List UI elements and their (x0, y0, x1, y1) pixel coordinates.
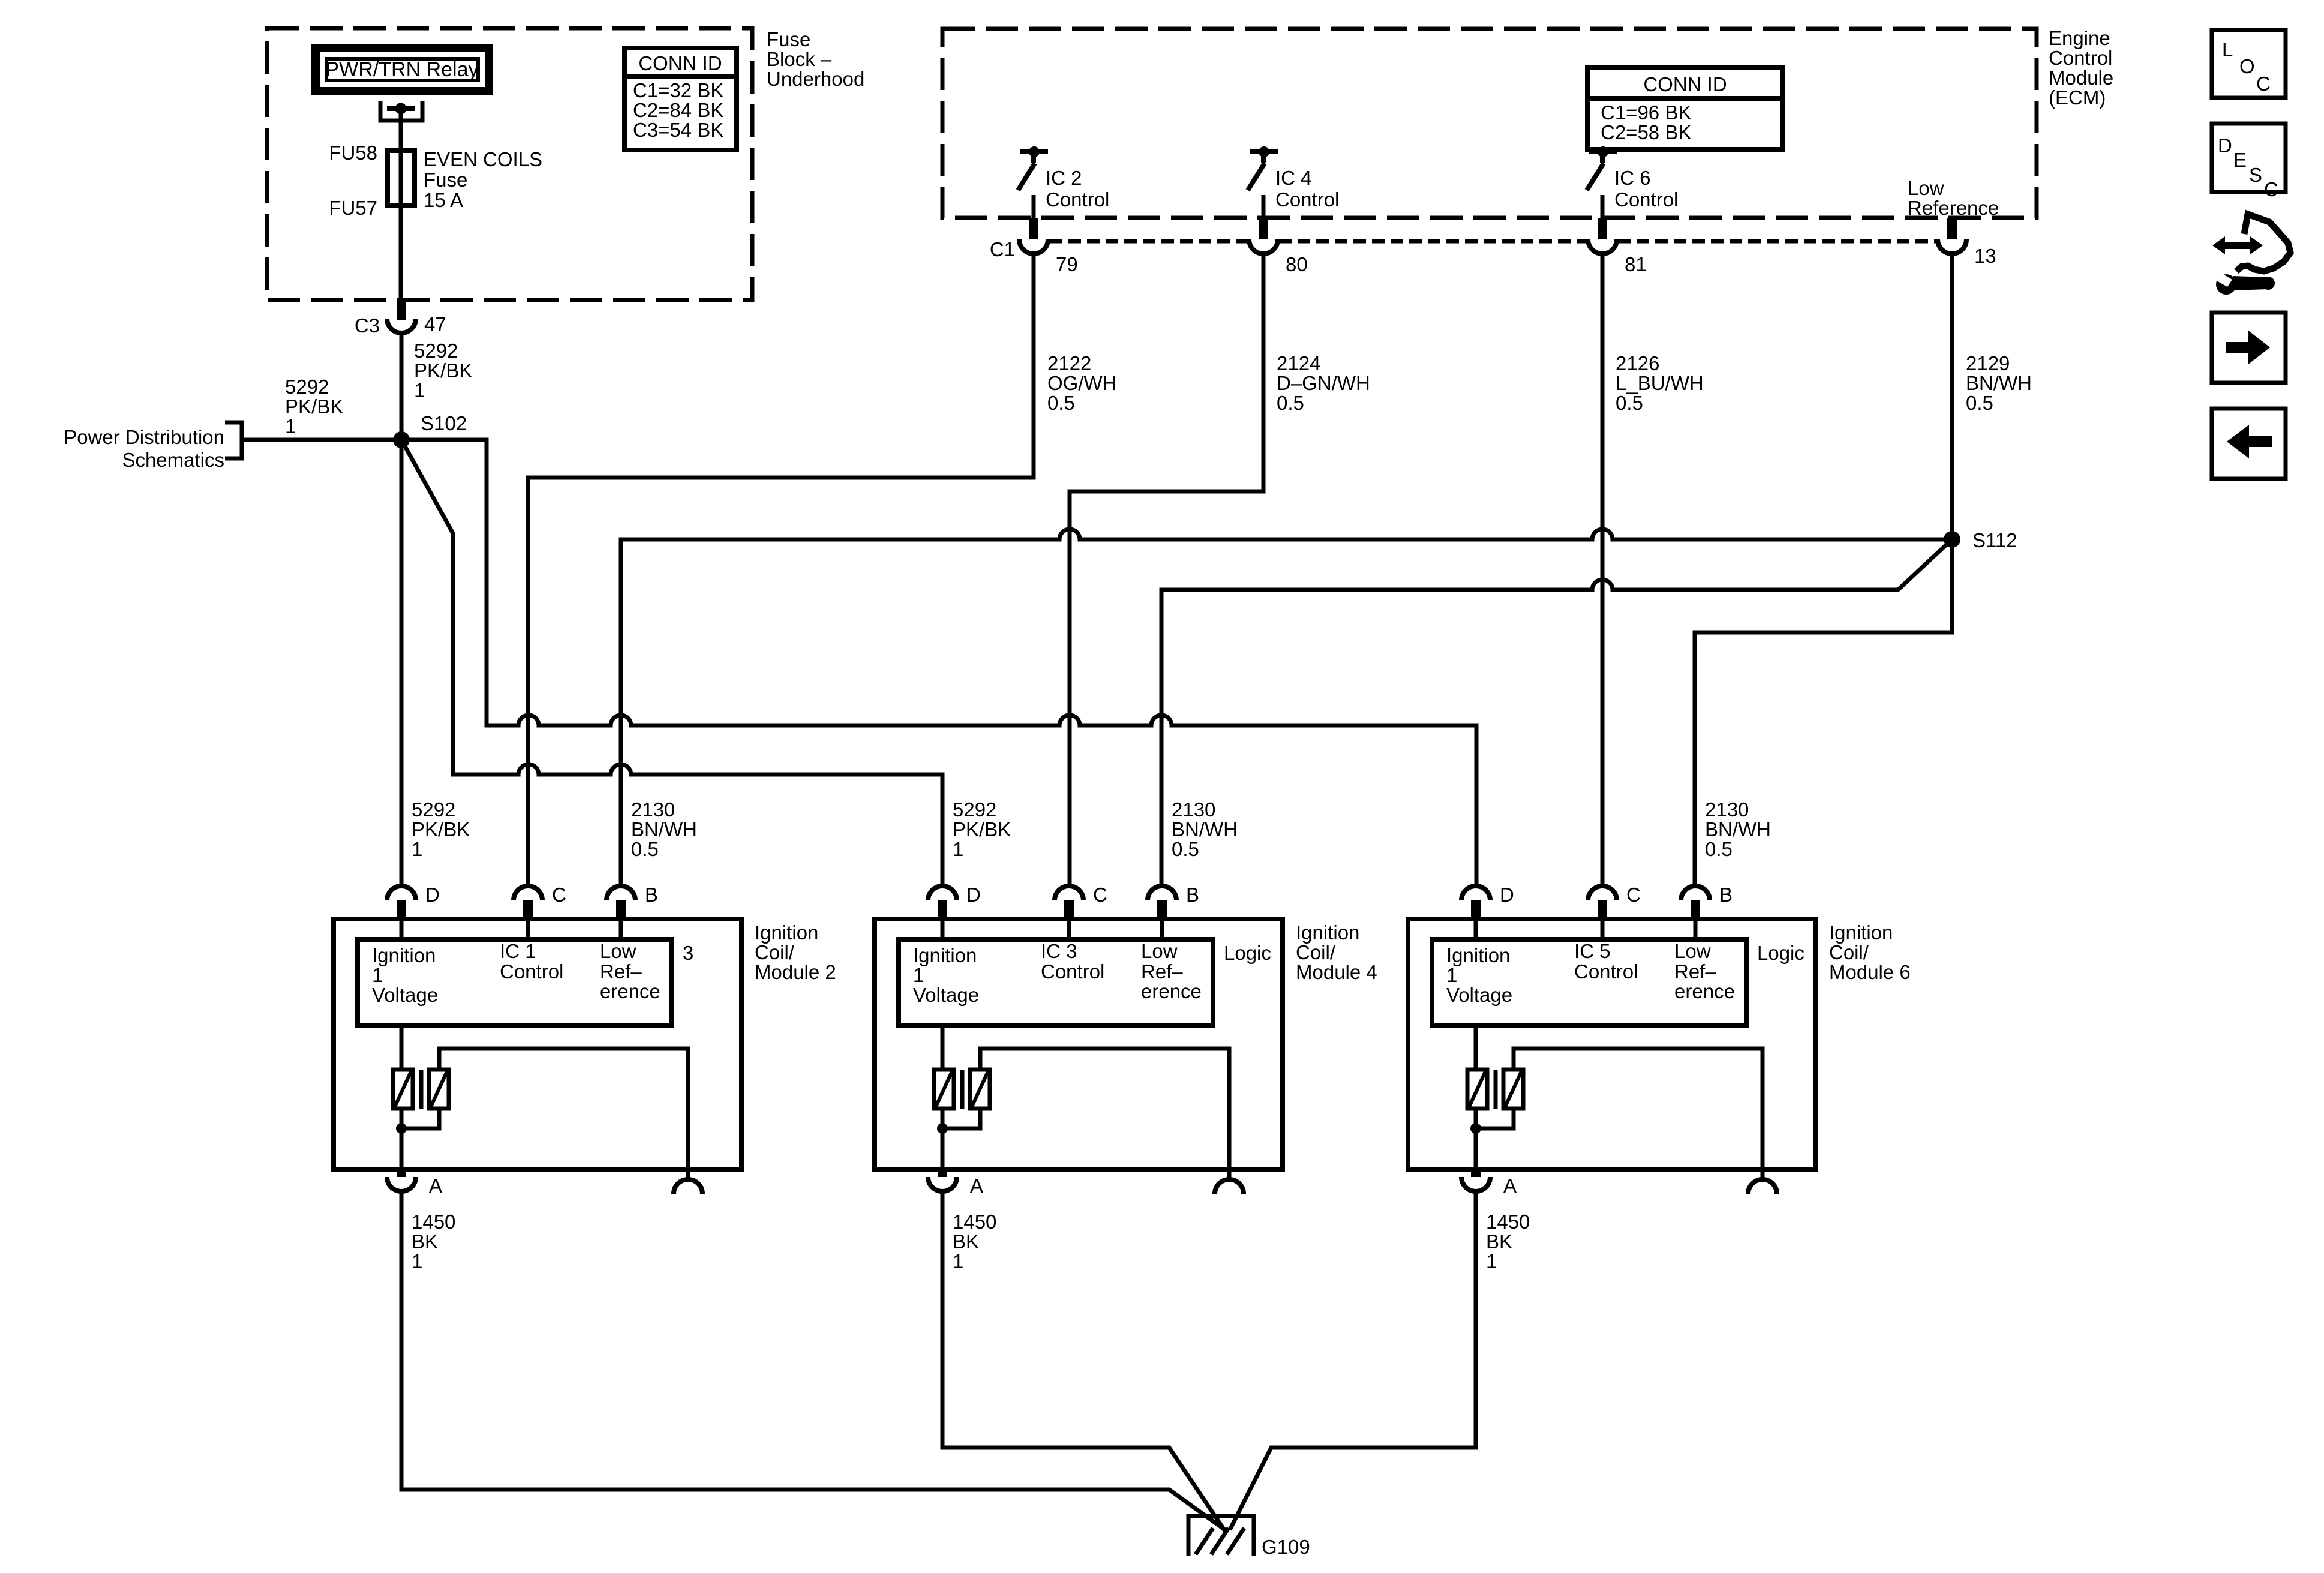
svg-text:Logic: Logic (1224, 942, 1271, 964)
module 4 pin A connector (938, 1169, 947, 1177)
icon LOC (location) (2212, 30, 2286, 98)
svg-text:Underhood: Underhood (767, 68, 864, 90)
svg-text:A: A (429, 1175, 442, 1197)
module 2 spark output terminal (674, 1179, 702, 1194)
svg-text:A: A (970, 1175, 983, 1197)
svg-text:0.5: 0.5 (1966, 392, 1993, 414)
svg-text:1450: 1450 (412, 1211, 455, 1233)
module 4 coil secondary winding (970, 1070, 990, 1109)
svg-text:1: 1 (1446, 964, 1457, 986)
svg-text:C: C (2264, 178, 2278, 200)
svg-text:IC 2: IC 2 (1046, 167, 1082, 189)
svg-text:BN/WH: BN/WH (1705, 818, 1771, 840)
svg-text:1: 1 (953, 1250, 963, 1272)
svg-text:IC 6: IC 6 (1614, 167, 1651, 189)
svg-text:erence: erence (1141, 980, 1202, 1002)
module 2 inner block (358, 939, 672, 1025)
svg-text:Voltage: Voltage (913, 984, 979, 1006)
module 6 inner block (1432, 939, 1746, 1025)
svg-text:C3=54 BK: C3=54 BK (633, 119, 723, 141)
svg-text:D: D (425, 884, 440, 906)
CONN ID table (fuse block) (624, 48, 737, 150)
svg-text:Ignition: Ignition (372, 944, 436, 966)
relay PWR/TRN Relay (bold box) (316, 48, 489, 91)
icon DESC (description) (2212, 124, 2286, 192)
svg-text:PWR/TRN Relay: PWR/TRN Relay (325, 58, 478, 81)
svg-text:0.5: 0.5 (1616, 392, 1643, 414)
svg-text:0.5: 0.5 (1047, 392, 1075, 414)
svg-text:5292: 5292 (414, 340, 458, 362)
svg-text:3: 3 (683, 942, 693, 964)
svg-text:Power Distribution: Power Distribution (64, 426, 224, 448)
svg-text:2130: 2130 (1705, 798, 1749, 821)
svg-text:Ignition: Ignition (1446, 944, 1510, 966)
wire 2126 L_BU/WH pin81 to module6 C (1601, 253, 1605, 886)
svg-text:Fuse: Fuse (424, 169, 467, 191)
svg-text:Low: Low (600, 940, 636, 962)
module 6 coil core (1494, 1070, 1498, 1109)
module 2 pin C connector (514, 886, 542, 900)
svg-text:S102: S102 (421, 412, 467, 434)
ignition coil/module 6 box (1408, 919, 1816, 1169)
svg-text:Engine: Engine (2049, 27, 2110, 49)
wire 5292 PK/BK to power distribution (242, 438, 401, 442)
svg-text:erence: erence (600, 980, 660, 1002)
svg-text:Ref–: Ref– (600, 960, 642, 983)
module 4 coil core (960, 1070, 965, 1109)
module 6 coil secondary winding (1503, 1070, 1523, 1109)
svg-text:1: 1 (953, 838, 963, 860)
wire 2130 low reference bus S112 to module2 B (621, 529, 1952, 886)
svg-text:EVEN COILS: EVEN COILS (424, 148, 542, 170)
module 2 winding junction dot (396, 1123, 407, 1134)
ECM pin 13 connector (1947, 218, 1957, 239)
module 4 pin B connector (1148, 886, 1176, 900)
module 4 winding junction dot (937, 1123, 948, 1134)
svg-text:G109: G109 (1262, 1536, 1310, 1558)
svg-text:Coil/: Coil/ (1296, 941, 1336, 963)
svg-text:IC 4: IC 4 (1275, 167, 1312, 189)
icon back arrow (2212, 409, 2286, 479)
svg-text:Ref–: Ref– (1141, 960, 1183, 983)
svg-text:Control: Control (500, 960, 563, 983)
wire relay to fuse to C3 (399, 109, 403, 299)
svg-text:Ignition: Ignition (1296, 921, 1359, 944)
module 4 winding common wires (941, 1109, 945, 1169)
svg-text:5292: 5292 (953, 798, 996, 821)
svg-text:PK/BK: PK/BK (414, 359, 472, 382)
ground G109 symbol (1188, 1516, 1254, 1556)
svg-text:Schematics: Schematics (122, 449, 224, 471)
engine control module ECM (dashed enclosure) (942, 29, 2037, 218)
svg-text:Control: Control (1046, 188, 1109, 211)
wire 2130 S112 to module4 B (1161, 539, 1952, 886)
svg-text:FU58: FU58 (329, 142, 377, 164)
svg-text:2124: 2124 (1277, 352, 1320, 374)
switch driver IC 6 (inside ECM) (1589, 149, 1617, 154)
svg-text:D–GN/WH: D–GN/WH (1277, 372, 1370, 394)
svg-text:2126: 2126 (1616, 352, 1659, 374)
ignition coil/module 4 box (875, 919, 1283, 1169)
relay output terminal (380, 101, 422, 121)
svg-text:OG/WH: OG/WH (1047, 372, 1116, 394)
svg-text:D: D (966, 884, 981, 906)
module 6 pin C connector (1588, 886, 1617, 900)
svg-text:Module: Module (2049, 67, 2113, 89)
svg-text:A: A (1503, 1175, 1517, 1197)
svg-text:Module 6: Module 6 (1829, 961, 1911, 983)
svg-text:Module 4: Module 4 (1296, 961, 1377, 983)
svg-text:Coil/: Coil/ (1829, 941, 1869, 963)
switch driver IC 4 (inside ECM) (1250, 149, 1278, 154)
svg-text:D: D (2218, 134, 2232, 157)
module 4 pin D connector (928, 886, 957, 900)
svg-text:1: 1 (414, 379, 425, 401)
svg-text:L_BU/WH: L_BU/WH (1616, 372, 1704, 394)
svg-text:2122: 2122 (1047, 352, 1091, 374)
svg-text:Control: Control (1275, 188, 1339, 211)
svg-text:BK: BK (953, 1230, 979, 1253)
module 6 secondary output wire (1514, 1049, 1762, 1180)
node S102 junction dot (393, 431, 410, 448)
module 2 coil primary winding (400, 1025, 404, 1070)
wire 2124 D-GN/WH pin80 to module4 C (1070, 253, 1263, 886)
module 2 pin B connector (606, 886, 635, 900)
svg-text:IC 3: IC 3 (1041, 940, 1077, 962)
svg-text:BK: BK (1486, 1230, 1512, 1253)
svg-text:(ECM): (ECM) (2049, 86, 2106, 109)
wire 1450 BK module4 A to G109 (942, 1190, 1225, 1531)
svg-text:1: 1 (412, 1250, 422, 1272)
svg-text:Logic: Logic (1757, 942, 1804, 964)
wire 5292 S102 to module4 D (401, 440, 942, 886)
wire 5292 S102 to module2 D (400, 440, 404, 886)
svg-text:0.5: 0.5 (631, 838, 659, 860)
CONN ID table (ECM) (1587, 68, 1783, 149)
svg-text:C2=58 BK: C2=58 BK (1601, 121, 1691, 143)
wire 2129 BN/WH pin13 to S112 (1950, 253, 1954, 539)
ECM connector line (dotted) (1050, 239, 1248, 244)
svg-text:FU57: FU57 (329, 197, 377, 219)
svg-text:S112: S112 (1972, 529, 2017, 551)
svg-text:C3: C3 (355, 314, 380, 337)
svg-text:Ignition: Ignition (755, 921, 818, 944)
svg-text:erence: erence (1674, 980, 1735, 1002)
svg-text:C2=84 BK: C2=84 BK (633, 99, 723, 121)
fuse FU57/FU58 EVEN COILS 15A (388, 151, 415, 206)
svg-text:PK/BK: PK/BK (953, 818, 1011, 840)
svg-text:Ignition: Ignition (1829, 921, 1893, 944)
svg-text:Fuse: Fuse (767, 28, 810, 50)
svg-text:C: C (1093, 884, 1107, 906)
module 4 secondary output wire (980, 1049, 1229, 1180)
svg-text:S: S (2249, 164, 2262, 186)
svg-text:1: 1 (913, 964, 924, 986)
fuse block - underhood (dashed enclosure) (267, 28, 752, 300)
module 6 pin D connector (1461, 886, 1490, 900)
svg-text:Reference: Reference (1908, 197, 1999, 219)
svg-text:E: E (2233, 149, 2247, 171)
svg-text:D: D (1500, 884, 1514, 906)
wire 5292 C3 to S102 (400, 332, 404, 440)
module 4 coil primary winding (941, 1025, 945, 1070)
svg-text:80: 80 (1286, 253, 1308, 275)
svg-text:0.5: 0.5 (1705, 838, 1733, 860)
wire 1450 BK module2 A to G109 (401, 1190, 1227, 1532)
svg-text:Low: Low (1674, 940, 1711, 962)
svg-text:15 A: 15 A (424, 189, 463, 211)
svg-text:Ref–: Ref– (1674, 960, 1716, 983)
svg-text:Control: Control (1614, 188, 1678, 211)
svg-text:IC 1: IC 1 (500, 940, 536, 962)
module 2 winding common wires (400, 1109, 404, 1169)
svg-text:0.5: 0.5 (1172, 838, 1199, 860)
svg-text:B: B (1186, 884, 1199, 906)
module 2 coil core (419, 1070, 424, 1109)
connector C3 pin 47 (397, 299, 406, 320)
svg-text:5292: 5292 (285, 376, 329, 398)
module 6 pin A connector (1471, 1169, 1481, 1177)
module 4 inner block (899, 939, 1213, 1025)
svg-text:Module 2: Module 2 (755, 961, 836, 983)
svg-text:5292: 5292 (412, 798, 455, 821)
module 6 pin B connector (1681, 886, 1710, 900)
svg-text:2130: 2130 (631, 798, 675, 821)
svg-text:81: 81 (1625, 253, 1647, 275)
module 2 secondary output wire (439, 1049, 688, 1180)
module 6 coil primary winding (1474, 1025, 1478, 1070)
svg-text:Voltage: Voltage (372, 984, 438, 1006)
svg-text:2129: 2129 (1966, 352, 2010, 374)
svg-text:C1=32 BK: C1=32 BK (633, 79, 723, 101)
svg-text:CONN ID: CONN ID (638, 52, 722, 74)
svg-text:Block –: Block – (767, 48, 832, 70)
svg-text:Control: Control (1041, 960, 1104, 983)
module 6 winding junction dot (1470, 1123, 1481, 1134)
ECM pin 79 connector (1029, 218, 1038, 239)
wire 5292 S102 to module6 D (401, 440, 1476, 886)
svg-text:1: 1 (412, 838, 422, 860)
svg-text:Control: Control (2049, 47, 2112, 69)
module 6 winding common wires (1474, 1109, 1478, 1169)
svg-text:PK/BK: PK/BK (412, 818, 470, 840)
svg-text:IC 5: IC 5 (1574, 940, 1611, 962)
switch driver IC 2 (inside ECM) (1020, 149, 1048, 154)
svg-text:BN/WH: BN/WH (631, 818, 697, 840)
wire 1450 BK module6 A to G109 (1230, 1190, 1476, 1530)
svg-text:1: 1 (1486, 1250, 1497, 1272)
svg-text:CONN ID: CONN ID (1643, 73, 1727, 95)
wire 2122 OG/WH pin79 to module2 C (528, 253, 1034, 886)
svg-text:0.5: 0.5 (1277, 392, 1304, 414)
svg-text:C1=96 BK: C1=96 BK (1601, 101, 1691, 124)
svg-text:BN/WH: BN/WH (1172, 818, 1238, 840)
wire 2130 S112 to module6 B (1695, 539, 1952, 886)
module 6 spark output terminal (1748, 1179, 1777, 1194)
svg-text:Control: Control (1574, 960, 1638, 983)
svg-text:C: C (2256, 73, 2271, 95)
svg-text:47: 47 (424, 313, 446, 335)
node S112 junction dot (1944, 531, 1960, 548)
svg-text:1450: 1450 (1486, 1211, 1530, 1233)
svg-text:C: C (552, 884, 566, 906)
svg-text:79: 79 (1056, 253, 1078, 275)
svg-text:1450: 1450 (953, 1211, 996, 1233)
svg-text:C1: C1 (990, 238, 1015, 260)
svg-text:L: L (2222, 38, 2233, 61)
module 4 pin C connector (1055, 886, 1083, 900)
svg-text:B: B (1719, 884, 1733, 906)
svg-text:BN/WH: BN/WH (1966, 372, 2032, 394)
module 2 coil secondary winding (429, 1070, 449, 1109)
svg-text:O: O (2239, 55, 2255, 77)
svg-text:Ignition: Ignition (913, 944, 977, 966)
svg-text:1: 1 (372, 964, 383, 986)
icon forward arrow (2212, 313, 2286, 383)
ECM pin 80 connector (1259, 218, 1268, 239)
svg-text:1: 1 (285, 415, 296, 437)
svg-text:2130: 2130 (1172, 798, 1215, 821)
svg-text:13: 13 (1974, 245, 1996, 267)
svg-text:BK: BK (412, 1230, 438, 1253)
svg-text:Low: Low (1141, 940, 1178, 962)
ignition coil/module 2 box (334, 919, 741, 1169)
module 2 pin D connector (387, 886, 416, 900)
module 2 pin A connector (397, 1169, 406, 1177)
svg-text:Low: Low (1908, 177, 1944, 199)
module 4 spark output terminal (1215, 1179, 1244, 1194)
svg-text:Coil/: Coil/ (755, 941, 795, 963)
svg-text:B: B (645, 884, 658, 906)
ECM pin 81 connector (1598, 218, 1607, 239)
svg-text:PK/BK: PK/BK (285, 395, 343, 418)
svg-text:Voltage: Voltage (1446, 984, 1512, 1006)
icon connector end view with wrench (2236, 214, 2290, 271)
svg-text:C: C (1626, 884, 1641, 906)
